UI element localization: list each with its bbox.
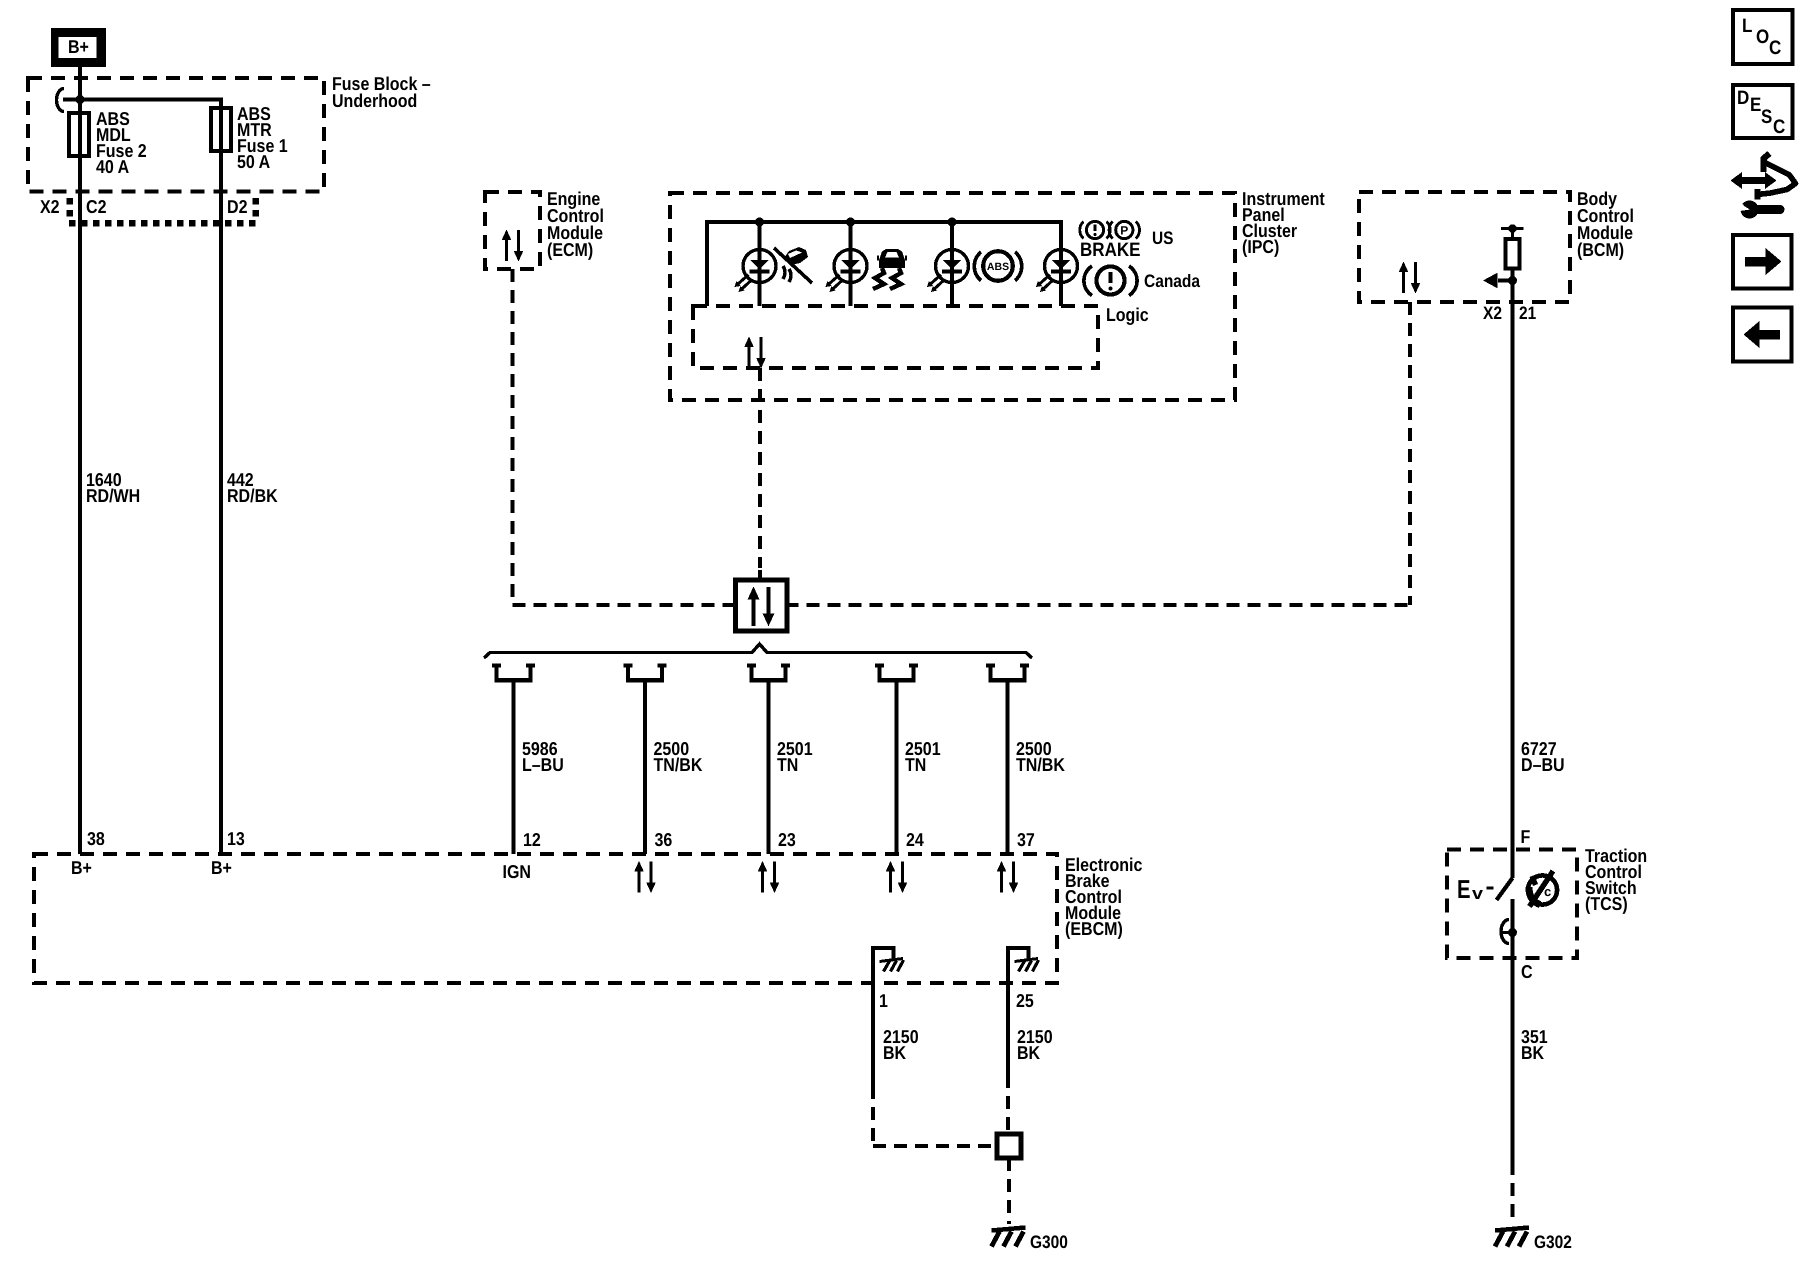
- TCS label: [1585, 845, 1647, 914]
- Ev momentary label: [1457, 874, 1494, 904]
- svg-text:Canada: Canada: [1144, 271, 1201, 291]
- lamp wire 1: [758, 222, 762, 306]
- svg-text:C2: C2: [86, 196, 107, 217]
- switch blade: [1497, 878, 1513, 900]
- indicator lamp LED 3: [927, 250, 969, 293]
- EBCM serial arrows at pin 24: [886, 861, 908, 893]
- wire 2500 a: [643, 680, 647, 854]
- junction at B+ feed: [76, 95, 85, 104]
- svg-text:24: 24: [906, 829, 924, 850]
- svg-text:25: 25: [1016, 990, 1034, 1011]
- TCS module box: [1447, 850, 1577, 959]
- fuse block - underhood box: [28, 78, 324, 192]
- indicator lamp LED 2: [825, 250, 867, 293]
- resistor R1 pull-up: [1511, 229, 1514, 240]
- svg-text:D: D: [1737, 87, 1749, 109]
- sidebar DESC button: [1733, 85, 1793, 138]
- connector at wire 2500 a: [624, 665, 667, 681]
- svg-text:50 A: 50 A: [237, 151, 270, 172]
- svg-text:C: C: [1773, 116, 1785, 138]
- wire splice to G300: [1007, 1158, 1011, 1224]
- ABS icon: [974, 251, 1021, 281]
- indicator lamp LED 1: [734, 250, 776, 293]
- wire 2501 TN label b: [905, 738, 941, 775]
- svg-text:ABS: ABS: [987, 261, 1009, 273]
- EBCM serial arrows at pin 23: [758, 861, 780, 893]
- wire B+ to fuse 2 and EBCM pin 38: [78, 67, 82, 854]
- svg-text:(TCS): (TCS): [1585, 893, 1628, 914]
- bus brace: [484, 644, 1032, 658]
- svg-text:38: 38: [87, 828, 105, 849]
- BCM module box: [1359, 192, 1570, 302]
- BCM label: [1577, 188, 1634, 260]
- BCM signal arrow: [1498, 278, 1513, 282]
- serial data bus wire (dashed): [513, 603, 1411, 607]
- battery feed B+: [51, 28, 106, 67]
- connector hook terminal at fuse block feed: [56, 88, 64, 111]
- fuse F1 ABS MTR: [211, 108, 231, 151]
- Canada brake warning icon: [1084, 266, 1201, 296]
- EBCM ground bracket pin 1: [873, 948, 904, 983]
- connector at wire 2501 a: [747, 665, 790, 681]
- fuse block label: [332, 73, 431, 111]
- svg-text:12: 12: [523, 829, 541, 850]
- wire 2150 BK label b: [1017, 1026, 1053, 1063]
- svg-text:BK: BK: [1017, 1042, 1041, 1063]
- serial data wire from ECM (dashed): [511, 269, 515, 605]
- svg-text:G300: G300: [1030, 1232, 1068, 1252]
- BCM internal node dot: [1508, 224, 1516, 232]
- ground wire from pin 1: [871, 983, 875, 1086]
- hill descent icon: [774, 247, 812, 283]
- sidebar next arrow button: [1733, 235, 1792, 289]
- EBCM ground bracket pin 25: [1008, 948, 1039, 983]
- svg-text:B+: B+: [68, 36, 89, 57]
- ground wire from pin 25: [1006, 983, 1010, 1075]
- fuse F1 label: [237, 103, 288, 172]
- wire to G302 (dashed): [1511, 1162, 1515, 1224]
- svg-text:v: v: [1472, 884, 1484, 903]
- svg-text:D2: D2: [227, 196, 248, 217]
- sidebar wiring tool icon: [1731, 154, 1796, 219]
- wire branch to fuse 1: [63, 100, 221, 855]
- connector at wire 2501 b: [875, 665, 918, 681]
- IPC module box: [670, 193, 1235, 400]
- wire 6727 D-BU label: [1521, 738, 1565, 775]
- ECM label: [547, 188, 604, 260]
- US brake warning icons: [1080, 221, 1174, 261]
- wire 351 BK label: [1521, 1026, 1548, 1063]
- wire 5986 L-BU label: [522, 738, 564, 775]
- svg-text:D–BU: D–BU: [1521, 754, 1565, 775]
- wire 2501 b: [895, 680, 899, 854]
- serial data wire from BCM (dashed): [1408, 302, 1412, 605]
- EBCM serial arrows at pin 36: [634, 861, 656, 893]
- IPC lamp supply bus wire: [707, 222, 1061, 306]
- sidebar LOC button: [1733, 10, 1793, 64]
- svg-text:TN: TN: [777, 754, 798, 775]
- EBCM module box: [34, 854, 1057, 983]
- connector X2 row of fuse block: [40, 196, 258, 223]
- sidebar back arrow button: [1733, 308, 1792, 362]
- svg-text:US: US: [1152, 228, 1174, 248]
- junction at resistor output: [1508, 276, 1517, 285]
- wire 2500 TN/BK label b: [1016, 738, 1065, 775]
- svg-text:C: C: [1521, 961, 1533, 982]
- BCM internal node bar: [1501, 227, 1524, 230]
- lamp wire 3: [950, 222, 954, 306]
- ground G300: [992, 1228, 1026, 1247]
- ECM serial data arrows: [502, 230, 524, 262]
- junction at TCS connector: [1508, 928, 1517, 937]
- svg-text:E: E: [1457, 874, 1471, 904]
- svg-text:B+: B+: [71, 857, 92, 878]
- connector at wire 5986: [492, 665, 535, 681]
- svg-text:IGN: IGN: [503, 861, 532, 882]
- svg-text:RD/BK: RD/BK: [227, 485, 278, 506]
- logic serial data arrows: [744, 337, 766, 369]
- svg-text:C: C: [1769, 37, 1781, 59]
- connector X2 pin 21 labels: [1483, 303, 1536, 323]
- svg-text:L: L: [1742, 15, 1752, 37]
- svg-text:37: 37: [1017, 829, 1035, 850]
- wire 442 RD/BK label: [227, 469, 278, 506]
- svg-text:23: 23: [778, 829, 796, 850]
- BCM serial data arrows: [1399, 262, 1421, 294]
- svg-text:X2: X2: [40, 196, 60, 217]
- traction control icon: [873, 249, 907, 289]
- wire 1640 RD/WH label: [86, 469, 140, 506]
- EBCM label: [1065, 854, 1142, 939]
- splice S1: [997, 1134, 1021, 1158]
- svg-text:(EBCM): (EBCM): [1065, 918, 1123, 939]
- svg-text:RD/WH: RD/WH: [86, 485, 140, 506]
- fuse F2 ABS MDL: [69, 113, 89, 156]
- svg-text:BK: BK: [1521, 1042, 1545, 1063]
- svg-text:c: c: [1544, 884, 1551, 899]
- svg-text:36: 36: [655, 829, 673, 850]
- IPC label: [1242, 188, 1325, 257]
- svg-text:(BCM): (BCM): [1577, 239, 1624, 260]
- TCS lower wire: [1511, 899, 1515, 1162]
- svg-text:BRAKE: BRAKE: [1080, 239, 1141, 261]
- svg-text:TN: TN: [905, 754, 926, 775]
- wire 2501 TN label a: [777, 738, 813, 775]
- junction node 3: [948, 218, 957, 227]
- svg-text:1: 1: [879, 990, 888, 1011]
- junction node 1: [755, 218, 764, 227]
- svg-text:21: 21: [1519, 303, 1536, 323]
- ground G302: [1495, 1228, 1529, 1247]
- wire 2500 b: [1006, 680, 1010, 854]
- svg-text:S: S: [1761, 106, 1772, 128]
- svg-text:E: E: [1750, 94, 1761, 116]
- svg-text:BK: BK: [883, 1042, 907, 1063]
- indicator lamp LED 4: [1036, 250, 1078, 293]
- serial data wire from IPC logic (dashed): [758, 368, 762, 568]
- svg-text:P: P: [1120, 224, 1128, 238]
- svg-text:X2: X2: [1483, 303, 1502, 323]
- wire 2150 BK label a: [883, 1026, 919, 1063]
- svg-text:(ECM): (ECM): [547, 239, 593, 260]
- svg-text:G302: G302: [1534, 1232, 1572, 1252]
- EBCM serial arrows at pin 37: [997, 861, 1019, 893]
- svg-text:13: 13: [227, 828, 245, 849]
- connector at wire 2500 b: [986, 665, 1029, 681]
- wire 6727 from BCM to TCS: [1511, 302, 1515, 878]
- svg-text:Underhood: Underhood: [332, 90, 417, 111]
- svg-text:L–BU: L–BU: [522, 754, 564, 775]
- wire 5986: [512, 680, 516, 854]
- svg-text:TN/BK: TN/BK: [1016, 754, 1065, 775]
- svg-text:O: O: [1756, 26, 1769, 48]
- fuse F2 label: [96, 108, 147, 177]
- serial data gateway box: [736, 580, 788, 631]
- svg-text:TN/BK: TN/BK: [654, 754, 703, 775]
- IPC logic box: [693, 306, 1098, 368]
- junction node 2: [846, 218, 855, 227]
- svg-text:F: F: [1521, 826, 1531, 847]
- wire 2500 TN/BK label a: [654, 738, 703, 775]
- TC off icon: [1528, 871, 1557, 907]
- ECM module box: [485, 192, 540, 269]
- svg-text:(IPC): (IPC): [1242, 236, 1279, 257]
- svg-text:B+: B+: [211, 857, 232, 878]
- svg-text:40 A: 40 A: [96, 156, 129, 177]
- connector hook in TCS: [1501, 920, 1509, 944]
- wire 2501 a: [767, 680, 771, 854]
- svg-text:Logic: Logic: [1106, 304, 1149, 325]
- lamp wire 2: [849, 222, 853, 306]
